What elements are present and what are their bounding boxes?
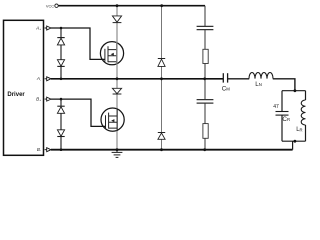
- svg-text:LN: LN: [255, 81, 262, 88]
- svg-text:CM: CM: [222, 86, 231, 93]
- svg-text:VCC: VCC: [46, 3, 54, 8]
- svg-text:A-: A-: [36, 76, 41, 82]
- svg-text:B+: B+: [36, 97, 41, 103]
- svg-text:LR: LR: [296, 127, 302, 133]
- svg-text:B-: B-: [37, 147, 41, 153]
- svg-text:47: 47: [273, 104, 279, 110]
- svg-text:A+: A+: [35, 25, 41, 31]
- svg-text:CR: CR: [282, 116, 290, 123]
- svg-text:Driver: Driver: [7, 92, 25, 98]
